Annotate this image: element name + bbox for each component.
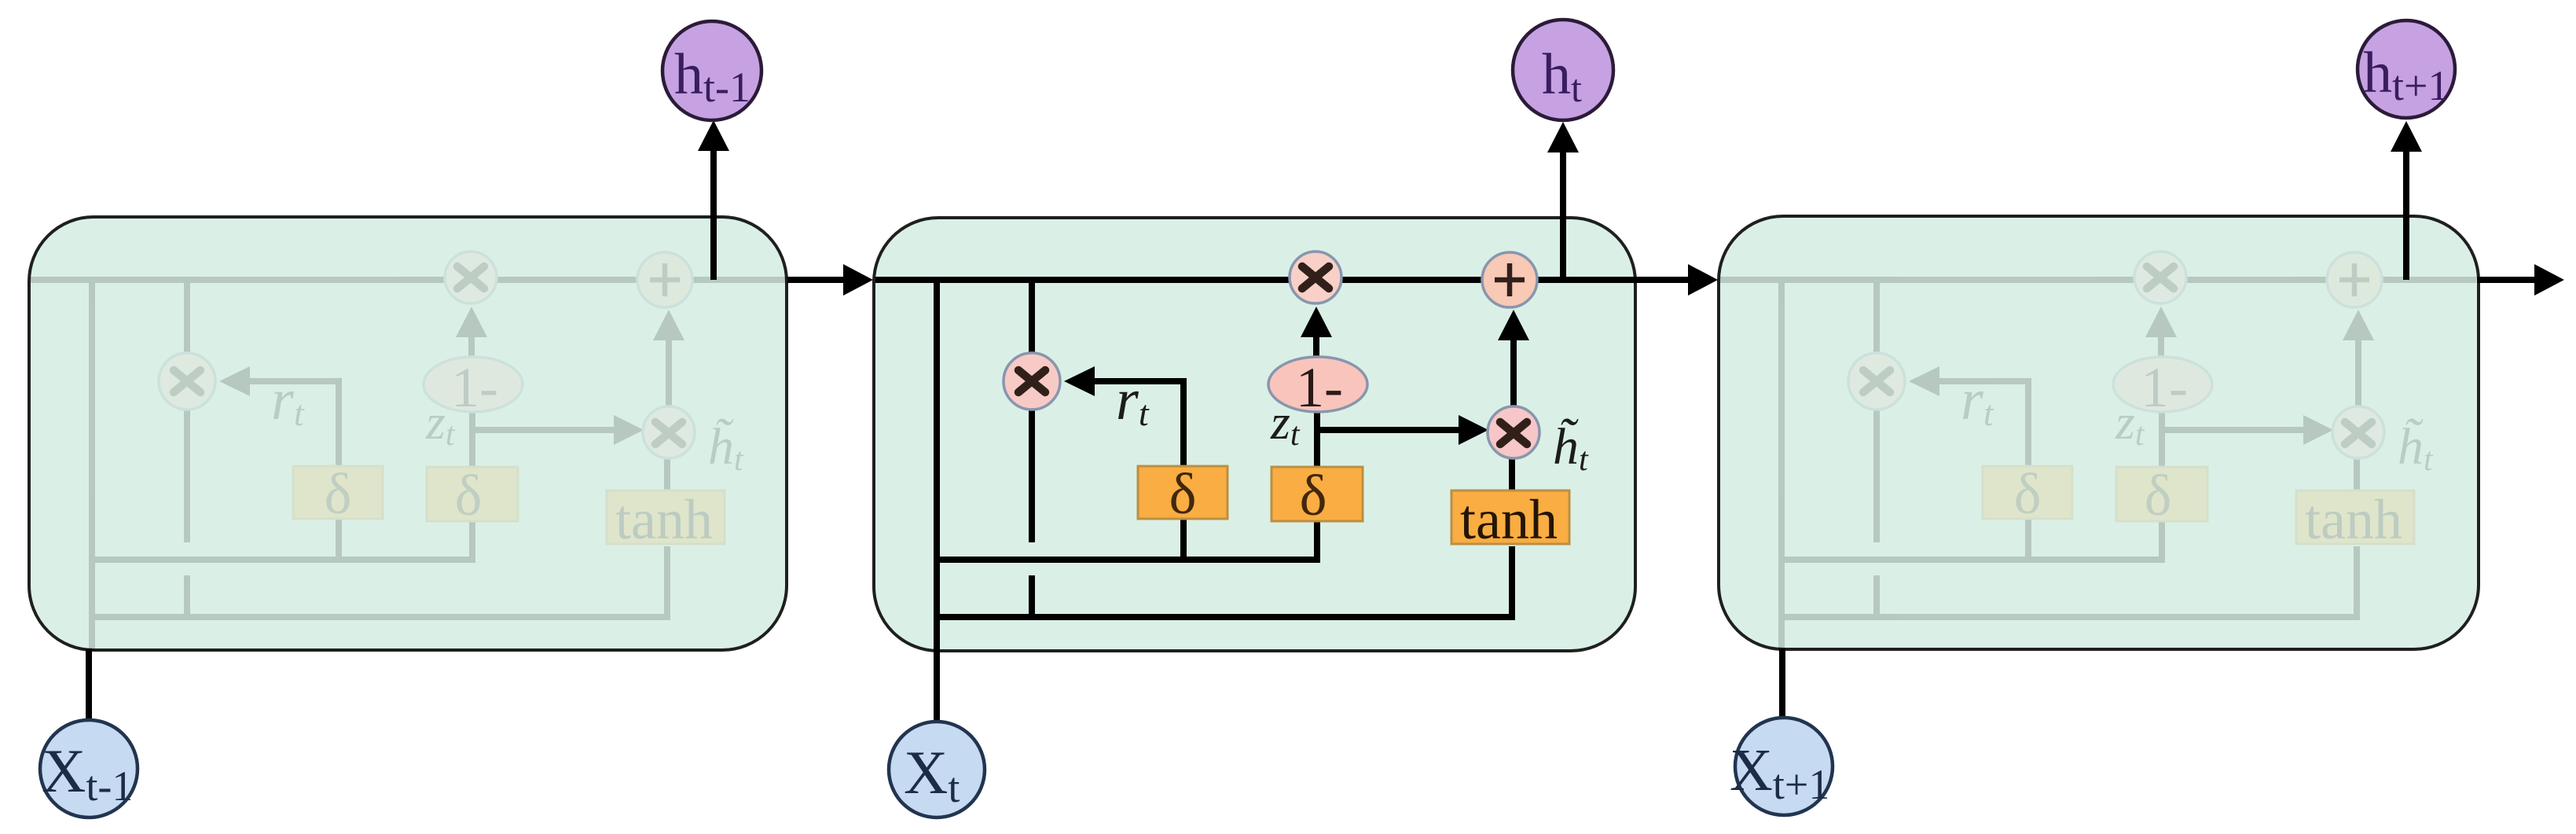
- wire: h_t output vertical of cell t: [1560, 151, 1566, 280]
- node x_t: [889, 722, 985, 817]
- wire: cell t-1 to cell t arrow: [787, 277, 844, 283]
- wire: h_t+1 output vertical of cell t+1: [2403, 150, 2409, 280]
- node h_t: [1513, 20, 1613, 120]
- interior of cell t: [875, 252, 1631, 651]
- node h_t+1: [2358, 20, 2455, 118]
- faded interior of cell t+1: [1720, 252, 2476, 651]
- faded interior of cell t-1: [31, 252, 787, 651]
- node x_t+1: [1735, 718, 1833, 815]
- wire: x_t-1 input vertical: [86, 648, 92, 722]
- GRU cell box t-1: [29, 217, 787, 650]
- wire: x_t input vertical: [934, 649, 940, 722]
- GRU cell box t+1: [1719, 216, 2479, 649]
- wire: cell t to cell t+1 arrow: [1631, 277, 1689, 283]
- node x_t-1: [40, 720, 138, 817]
- wire: x_t+1 input vertical: [1779, 648, 1785, 720]
- wire: h_t-1 output vertical of cell t-1: [710, 149, 717, 280]
- node h_t-1: [662, 21, 761, 120]
- GRU cell box t: [874, 218, 1635, 651]
- wire: cell t+1 output arrow: [2477, 277, 2535, 283]
